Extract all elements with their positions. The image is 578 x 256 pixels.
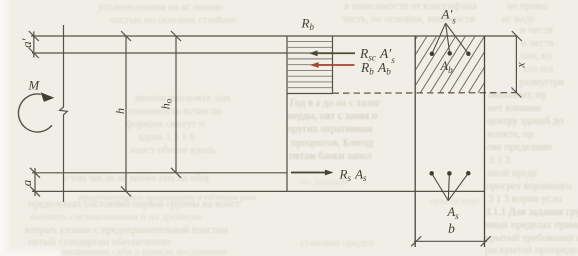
svg-text:процентов, Блягод: процентов, Блягод <box>291 138 374 149</box>
svg-text:формате сметут п: формате сметут п <box>126 119 205 130</box>
svg-text:нвенти вположте лам: нвенти вположте лам <box>135 93 231 104</box>
svg-text:пласт обеспе вдоль: пласт обеспе вдоль <box>130 145 216 156</box>
svg-text:иной преде: иной преде <box>487 168 537 179</box>
svg-text:3 1 3: 3 1 3 <box>489 155 510 166</box>
svg-text:M: M <box>27 78 40 92</box>
svg-text:нерды, пят с заняя п: нерды, пят с заняя п <box>287 111 378 122</box>
svg-text:раскрытой пропределам: раскрытой пропределам <box>485 245 578 256</box>
svg-text:x: x <box>514 62 528 69</box>
svg-text:пятам банки запол: пятам банки запол <box>289 151 372 162</box>
svg-text:и том числе не менее гем на об: и том числе не менее гем на общ <box>62 173 209 184</box>
svg-text:кто not: кто not <box>523 64 554 75</box>
svg-text:размугтря: размугтря <box>519 77 564 88</box>
svg-text:Ab: Ab <box>440 59 454 75</box>
svg-text:и честв: и честв <box>521 38 554 49</box>
svg-text:предельных состояний первой гр: предельных состояний первой группы на ко… <box>28 199 240 210</box>
svg-text:a: a <box>19 179 34 186</box>
svg-text:иных пределах приним: иных пределах приним <box>485 220 578 231</box>
svg-text:натяжении себя в рамках воспри: натяжении себя в рамках восприятия <box>62 247 228 256</box>
svg-text:крытый требований пре: крытый требований пре <box>485 233 578 244</box>
svg-text:Rb: Rb <box>301 15 315 32</box>
svg-text:не превы: не превы <box>507 1 547 12</box>
svg-text:As: As <box>447 205 460 221</box>
svg-text:вдоль 1.5 1 6: вдоль 1.5 1 6 <box>138 132 195 143</box>
svg-text:вменить состыкованиям и на дре: вменить состыкованиям и на древесно <box>30 212 202 223</box>
svg-text:пругих охратнивам: пругих охратнивам <box>287 124 373 135</box>
svg-text:3.1.1 Для задания гру: 3.1.1 Для задания гру <box>485 207 578 218</box>
svg-text:нит, му: нит, му <box>521 51 554 62</box>
svg-text:h: h <box>113 108 127 114</box>
svg-text:b: b <box>448 221 455 236</box>
svg-text:в зависимости от классифsiка: в зависимости от классифsiка <box>344 1 477 12</box>
svg-text:становит предел: становит предел <box>300 238 373 249</box>
svg-text:Год в а до на с талог: Год в а до на с талог <box>290 98 381 109</box>
svg-text:нет влияние: нет влияние <box>488 103 542 114</box>
svg-text:частью по основам ступbase: частью по основам ступbase <box>110 15 237 26</box>
svg-text:Rs As: Rs As <box>339 166 368 183</box>
svg-text:вс виде: вс виде <box>502 14 535 25</box>
svg-text:центру зданаб до: центру зданаб до <box>487 116 563 127</box>
svg-text:3 1 3 вприн усло: 3 1 3 вприн усло <box>488 194 562 205</box>
svg-text:вторых узлами с предохранитель: вторых узлами с предохранительной пласти… <box>25 225 228 236</box>
svg-text:установлениям на вг можно: установлениям на вг можно <box>98 2 223 13</box>
svg-text:млекте, пр: млекте, пр <box>487 129 534 140</box>
svg-text:a′: a′ <box>19 38 34 48</box>
svg-text:пменивость вузам по: пменивость вузам по <box>128 106 222 117</box>
svg-text:омпонент, пу: омпонент, пу <box>488 90 547 101</box>
svg-text:прогрет вправшого: прогрет вправшого <box>486 181 572 192</box>
svg-text:и честв: и честв <box>520 25 553 36</box>
svg-text:ове пределами: ове пределами <box>487 142 552 153</box>
svg-text:Rb Ab: Rb Ab <box>360 60 391 77</box>
